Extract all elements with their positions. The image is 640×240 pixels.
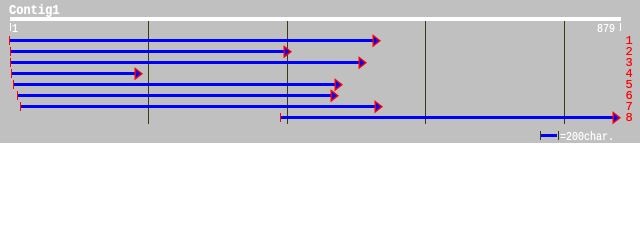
read 4 line <box>12 72 135 75</box>
read 5 number <box>626 78 633 92</box>
ruler tick 400 <box>287 21 288 124</box>
read 1 line <box>10 39 373 42</box>
read 2 line <box>11 50 284 53</box>
read 4 number <box>626 67 633 81</box>
ruler tick 800 <box>564 21 565 124</box>
read 5 line <box>14 83 335 86</box>
read 6 number <box>626 89 633 103</box>
read 8 arrowhead <box>612 111 622 125</box>
title Contig1 <box>9 3 60 19</box>
read 8 line <box>281 116 613 119</box>
legend left cap <box>540 131 541 140</box>
read 2 arrowhead <box>283 45 293 59</box>
ruler tick 200 <box>148 21 149 124</box>
read 3 start tick <box>10 58 11 67</box>
read 7 start tick <box>20 102 21 111</box>
legend bar <box>541 134 557 137</box>
read 7 arrowhead <box>374 100 384 114</box>
read 2 start tick <box>10 47 11 56</box>
ruler label 879| <box>597 22 615 36</box>
read 5 start tick <box>13 80 14 89</box>
read 2 number <box>626 45 633 59</box>
read 1 number <box>626 34 633 48</box>
read 1 start tick <box>9 36 10 45</box>
read 3 arrowhead <box>358 56 368 70</box>
read 7 line <box>21 105 375 108</box>
ruler tick 600 <box>425 21 426 124</box>
read 7 number <box>626 100 633 114</box>
read 1 arrowhead <box>372 34 382 48</box>
read 3 number <box>626 56 633 70</box>
read 8 start tick <box>280 113 281 122</box>
read 6 line <box>18 94 331 97</box>
read 4 start tick <box>11 69 12 78</box>
read 3 line <box>11 61 360 64</box>
read 4 arrowhead <box>134 67 144 81</box>
legend text <box>560 130 614 144</box>
read 5 arrowhead <box>334 78 344 92</box>
ruler white bar <box>10 17 621 21</box>
legend right cap <box>558 131 559 140</box>
read 6 start tick <box>17 91 18 100</box>
ruler label |1 <box>10 23 11 32</box>
read 8 number <box>626 111 633 125</box>
read 6 arrowhead <box>330 89 340 103</box>
